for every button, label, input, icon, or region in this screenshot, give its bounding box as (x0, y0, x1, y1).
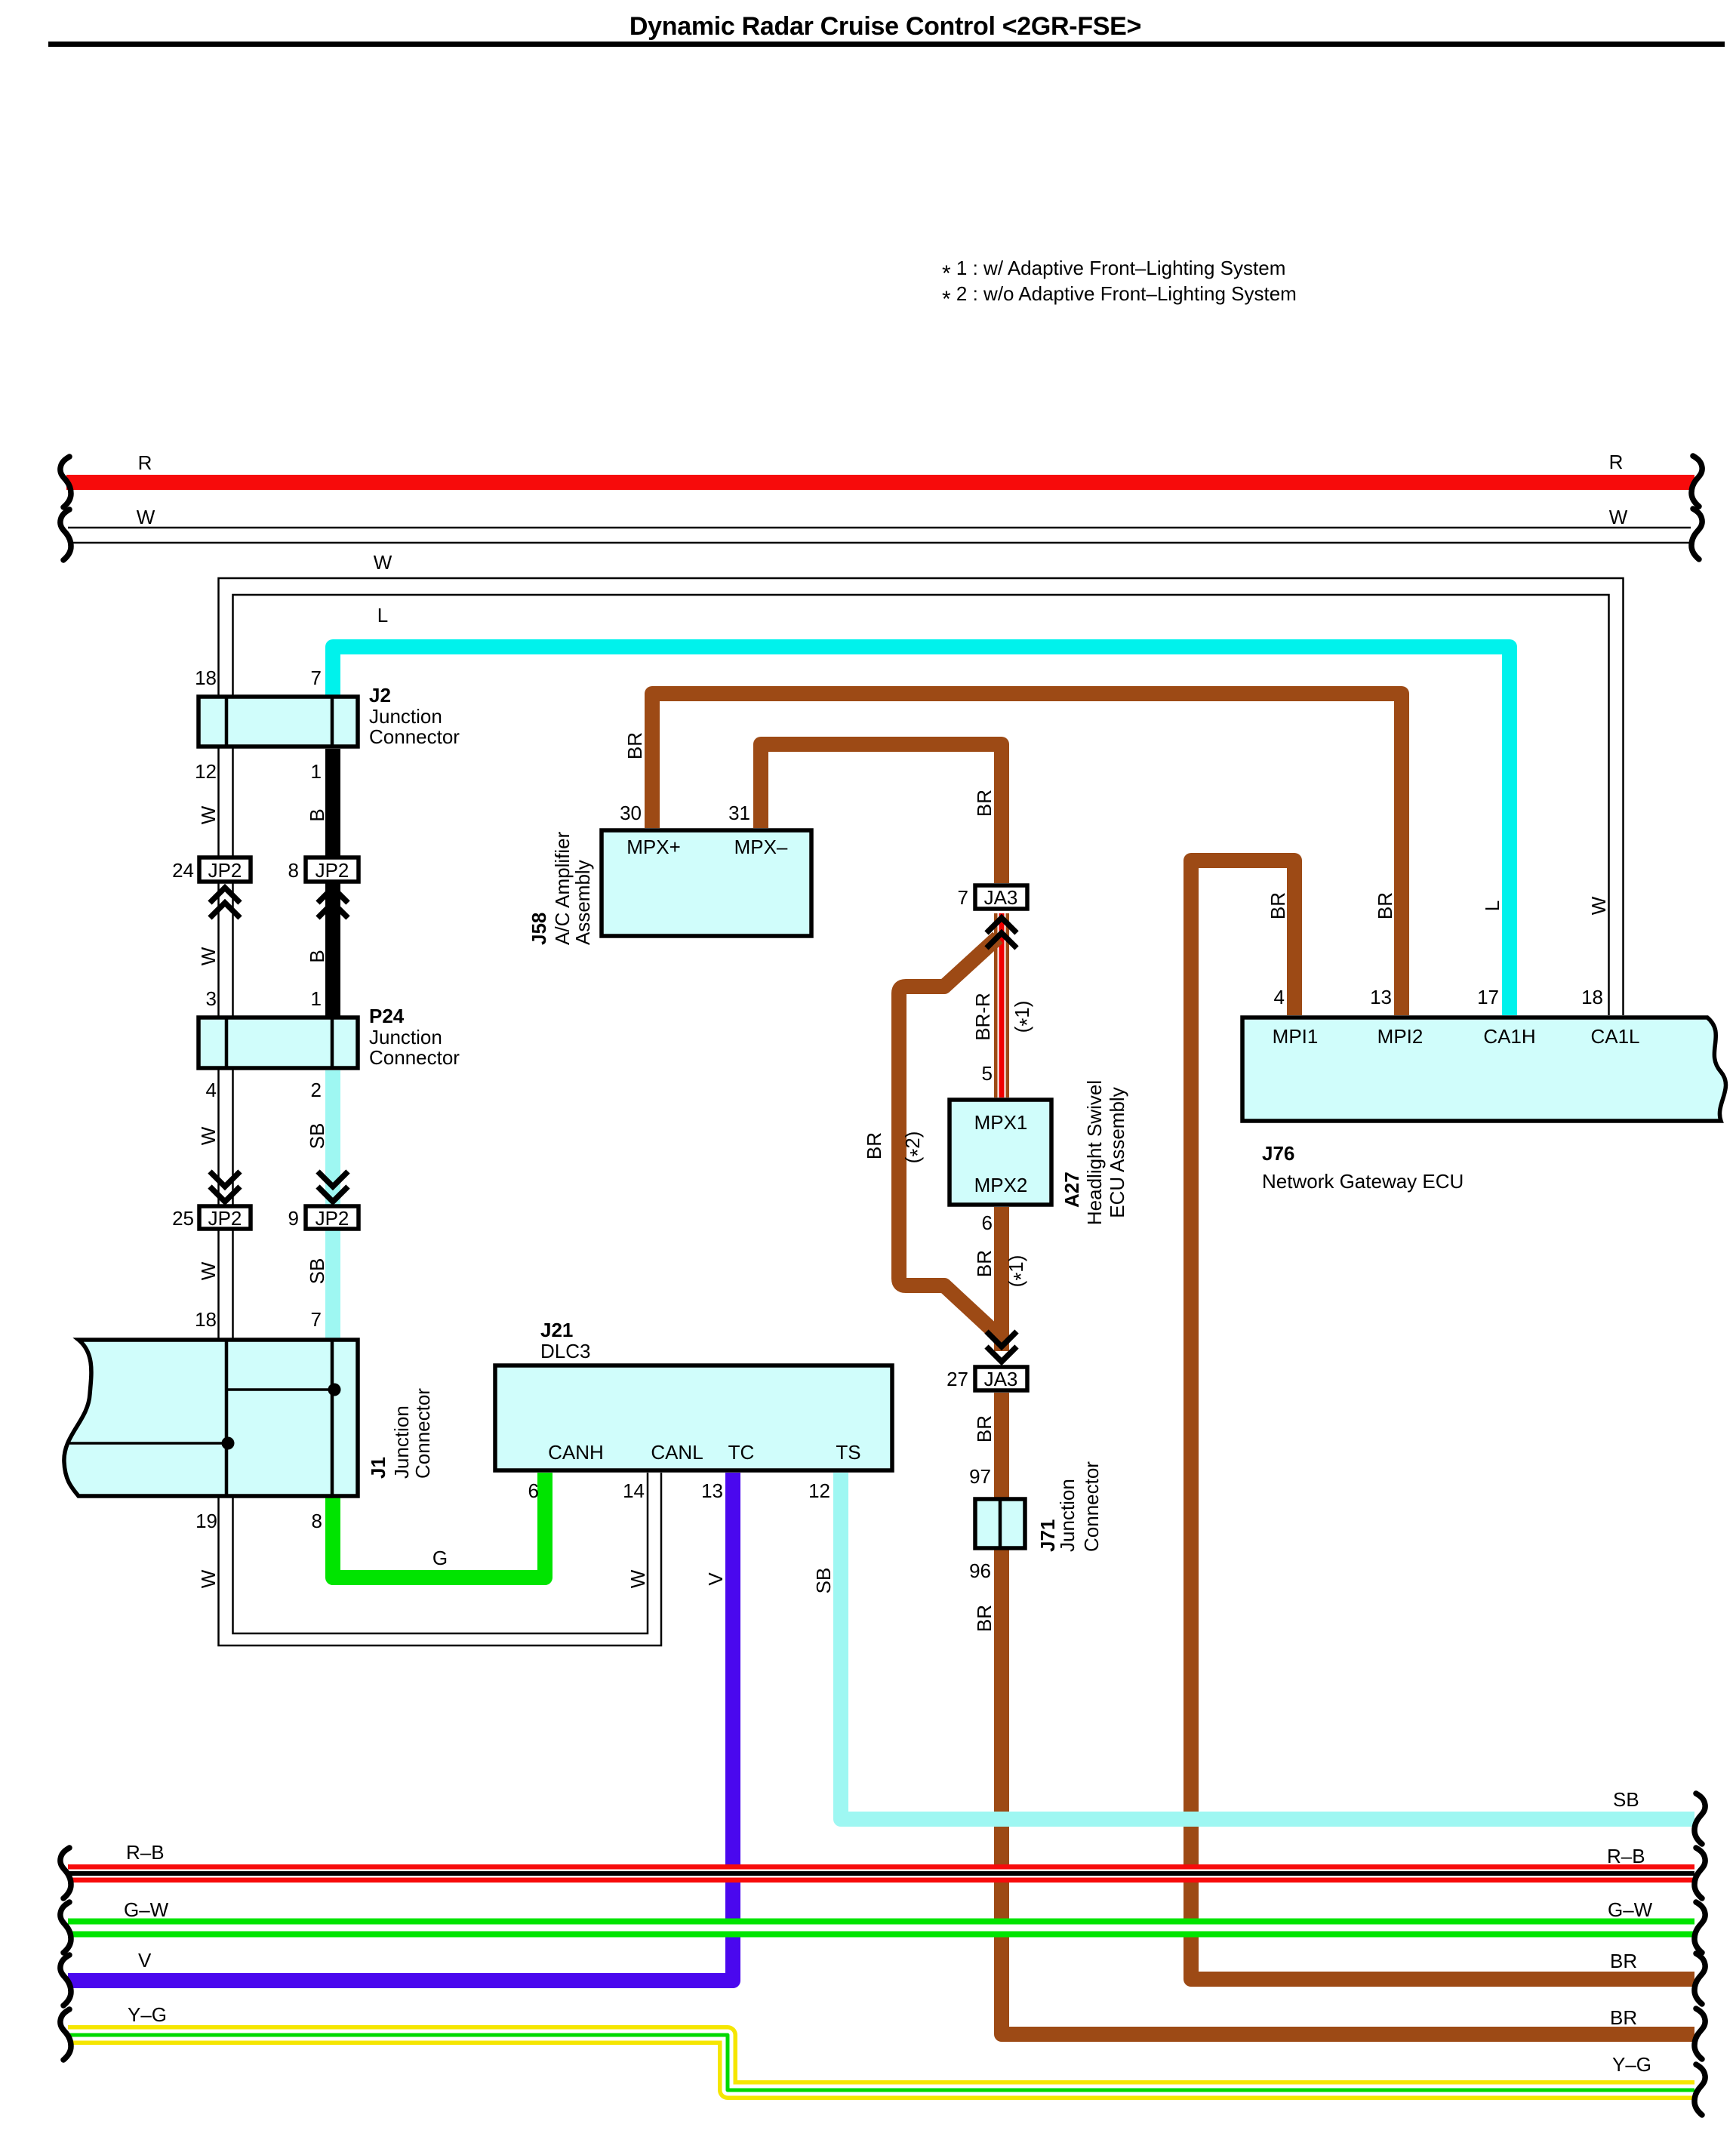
svg-text:BR: BR (1610, 2006, 1637, 2029)
svg-text:MPX1: MPX1 (974, 1111, 1028, 1134)
svg-text:24: 24 (172, 859, 194, 882)
svg-text:BR: BR (1267, 892, 1289, 919)
svg-text:W: W (137, 506, 155, 528)
svg-text:MPI1: MPI1 (1273, 1025, 1319, 1048)
svg-text:SB: SB (812, 1568, 835, 1594)
svg-text:BR: BR (1374, 892, 1396, 919)
svg-text:BR: BR (1610, 1950, 1637, 1972)
svg-text:G–W: G–W (124, 1898, 169, 1921)
svg-text:JP2: JP2 (208, 859, 242, 882)
svg-text:Y–G: Y–G (1612, 2053, 1651, 2076)
svg-text:18: 18 (1581, 986, 1603, 1008)
svg-text:A27: A27 (1060, 1171, 1083, 1208)
svg-text:Connector: Connector (411, 1388, 434, 1479)
svg-text:B: B (306, 808, 328, 821)
svg-text:TC: TC (728, 1441, 755, 1464)
svg-text:W: W (197, 1261, 220, 1280)
svg-text:14: 14 (623, 1479, 645, 1502)
svg-text:J1: J1 (367, 1457, 389, 1479)
svg-text:4: 4 (206, 1079, 217, 1101)
svg-text:9: 9 (288, 1207, 299, 1230)
svg-text:CANL: CANL (651, 1441, 703, 1464)
svg-text:Assembly: Assembly (571, 860, 594, 945)
svg-text:L: L (377, 604, 388, 626)
svg-text:W: W (197, 805, 220, 824)
svg-text:BR: BR (973, 790, 996, 817)
svg-text:SB: SB (306, 1258, 328, 1285)
svg-text:J76: J76 (1262, 1142, 1294, 1165)
svg-text:R: R (1609, 451, 1624, 473)
svg-text:G–W: G–W (1608, 1898, 1653, 1921)
svg-text:W: W (197, 1569, 220, 1588)
svg-text:J58: J58 (528, 913, 550, 945)
svg-text:J21: J21 (540, 1319, 573, 1341)
svg-text:B: B (306, 950, 328, 962)
svg-text:R–B: R–B (1607, 1845, 1645, 1867)
svg-text:V: V (704, 1572, 727, 1586)
svg-text:CA1L: CA1L (1590, 1025, 1639, 1048)
svg-text:Junction: Junction (369, 705, 442, 728)
svg-text:6: 6 (528, 1479, 539, 1502)
svg-text:Connector: Connector (1080, 1461, 1103, 1552)
svg-text:2: 2 (311, 1079, 322, 1101)
svg-text:MPI2: MPI2 (1377, 1025, 1424, 1048)
svg-text:5: 5 (982, 1062, 993, 1085)
svg-text:J2: J2 (369, 684, 391, 707)
svg-text:25: 25 (172, 1207, 194, 1230)
svg-text:Junction: Junction (1056, 1479, 1079, 1552)
svg-text:JA3: JA3 (984, 886, 1018, 909)
svg-text:8: 8 (312, 1510, 322, 1532)
svg-text:W: W (1609, 506, 1628, 528)
svg-text:TS: TS (836, 1441, 860, 1464)
svg-text:A/C Amplifier: A/C Amplifier (551, 831, 574, 945)
svg-text:V: V (138, 1949, 152, 1972)
svg-text:W: W (374, 551, 392, 574)
svg-text:8: 8 (288, 859, 299, 882)
svg-text:CANH: CANH (548, 1441, 604, 1464)
svg-text:(*1): (*1) (1011, 1001, 1039, 1033)
svg-text:DLC3: DLC3 (540, 1340, 590, 1362)
svg-text:7: 7 (311, 667, 322, 689)
svg-text:7: 7 (958, 886, 968, 909)
svg-text:Connector: Connector (369, 725, 460, 748)
svg-text:W: W (626, 1569, 649, 1588)
svg-text:BR: BR (973, 1605, 996, 1632)
svg-text:CA1H: CA1H (1483, 1025, 1535, 1048)
svg-text:* 2 : w/o Adaptive Front–Light: * 2 : w/o Adaptive Front–Lighting System (942, 282, 1297, 312)
svg-text:31: 31 (728, 802, 750, 824)
svg-text:JP2: JP2 (208, 1207, 242, 1230)
svg-text:1: 1 (311, 987, 322, 1010)
svg-text:18: 18 (195, 1308, 217, 1331)
svg-text:W: W (1587, 896, 1610, 915)
svg-text:7: 7 (311, 1308, 322, 1331)
svg-text:MPX+: MPX+ (626, 836, 681, 858)
svg-text:27: 27 (946, 1368, 968, 1390)
svg-text:13: 13 (701, 1479, 723, 1502)
svg-text:(*2): (*2) (901, 1131, 929, 1164)
svg-text:1: 1 (311, 760, 322, 783)
svg-text:SB: SB (1613, 1788, 1639, 1811)
svg-text:BR: BR (973, 1415, 996, 1442)
svg-text:Junction: Junction (390, 1405, 413, 1479)
svg-text:Headlight Swivel: Headlight Swivel (1083, 1080, 1106, 1225)
svg-text:18: 18 (195, 667, 217, 689)
svg-text:97: 97 (969, 1465, 991, 1488)
svg-text:MPX–: MPX– (734, 836, 788, 858)
svg-text:R–B: R–B (126, 1841, 165, 1864)
svg-text:Connector: Connector (369, 1046, 460, 1069)
svg-text:BR: BR (973, 1250, 996, 1277)
svg-text:BR-R: BR-R (971, 993, 994, 1041)
svg-text:Network Gateway ECU: Network Gateway ECU (1262, 1170, 1464, 1193)
svg-text:SB: SB (306, 1123, 328, 1150)
svg-text:30: 30 (620, 802, 642, 824)
svg-text:13: 13 (1370, 986, 1392, 1008)
svg-text:W: W (197, 947, 220, 965)
svg-text:Junction: Junction (369, 1026, 442, 1048)
svg-text:4: 4 (1274, 986, 1285, 1008)
svg-text:Y–G: Y–G (128, 2003, 167, 2026)
svg-text:Dynamic Radar Cruise Control <: Dynamic Radar Cruise Control <2GR-FSE> (629, 12, 1141, 41)
svg-text:JA3: JA3 (984, 1368, 1018, 1390)
svg-text:G: G (432, 1547, 448, 1569)
svg-text:JP2: JP2 (315, 1207, 349, 1230)
svg-text:(*1): (*1) (1005, 1255, 1033, 1288)
svg-text:R: R (138, 451, 152, 474)
svg-text:JP2: JP2 (315, 859, 349, 882)
svg-text:W: W (197, 1126, 220, 1145)
svg-text:6: 6 (982, 1211, 993, 1234)
svg-text:ECU Assembly: ECU Assembly (1106, 1087, 1128, 1218)
svg-text:3: 3 (206, 987, 217, 1010)
svg-text:BR: BR (863, 1132, 885, 1159)
svg-text:BR: BR (623, 732, 646, 759)
svg-text:MPX2: MPX2 (974, 1174, 1028, 1196)
svg-text:12: 12 (808, 1479, 830, 1502)
svg-text:17: 17 (1477, 986, 1499, 1008)
svg-text:96: 96 (969, 1559, 991, 1582)
svg-text:P24: P24 (369, 1005, 405, 1027)
svg-text:19: 19 (195, 1510, 217, 1532)
svg-text:12: 12 (195, 760, 217, 783)
svg-text:L: L (1481, 900, 1504, 911)
